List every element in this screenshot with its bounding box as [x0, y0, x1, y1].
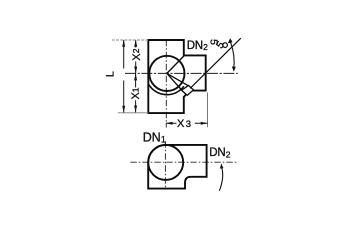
svg-text:3: 3 — [186, 119, 191, 130]
svg-text:1: 1 — [161, 135, 166, 145]
svg-text:2: 2 — [131, 48, 141, 53]
svg-text:2: 2 — [203, 42, 208, 52]
svg-text:2: 2 — [226, 149, 231, 159]
svg-text:X: X — [177, 118, 185, 130]
svg-text:DN: DN — [143, 130, 161, 144]
svg-text:L: L — [104, 71, 116, 77]
svg-text:1: 1 — [131, 87, 141, 92]
svg-text:DN: DN — [187, 40, 203, 52]
svg-text:DN: DN — [209, 147, 225, 159]
